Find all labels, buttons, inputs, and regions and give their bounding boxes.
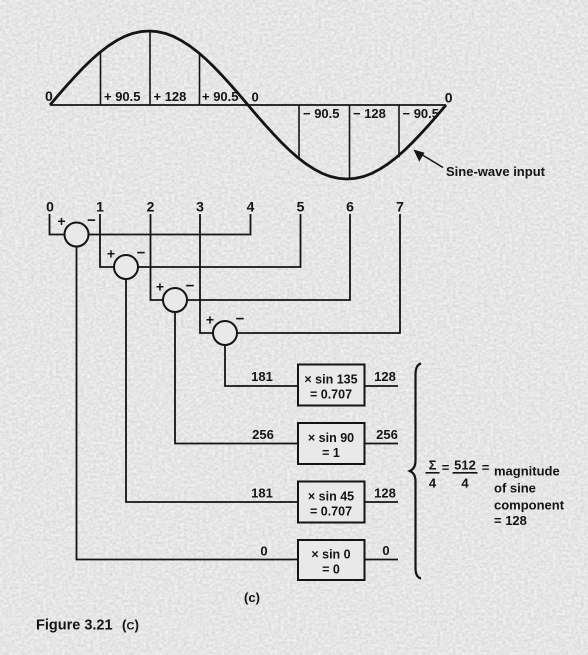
svg-text:× sin 45: × sin 45 bbox=[308, 490, 354, 504]
svg-text:− 90.5: − 90.5 bbox=[403, 106, 440, 121]
svg-text:= 0: = 0 bbox=[322, 563, 340, 577]
svg-text:128: 128 bbox=[374, 369, 396, 384]
svg-text:− 128: − 128 bbox=[353, 106, 386, 121]
wire M1 output bbox=[365, 385, 398, 387]
wire M3 output bbox=[365, 501, 398, 503]
sample line 7 (-90.5) bbox=[398, 105, 400, 157]
svg-text:6: 6 bbox=[346, 199, 354, 215]
wire sample 4 to S1 minus input bbox=[89, 214, 251, 235]
svg-text:Σ: Σ bbox=[429, 458, 437, 473]
svg-text:+ 90.5: + 90.5 bbox=[202, 89, 239, 104]
arrow to sine curve bbox=[414, 150, 444, 168]
sample line 5 (-90.5) bbox=[298, 105, 300, 157]
brace grouping outputs bbox=[410, 364, 421, 579]
svg-text:+: + bbox=[57, 213, 65, 229]
formula sum/4 = 512/4 bbox=[426, 458, 490, 491]
svg-text:256: 256 bbox=[376, 427, 398, 442]
svg-text:component: component bbox=[494, 498, 565, 513]
formula result text bbox=[494, 464, 565, 529]
svg-text:× sin 135: × sin 135 bbox=[304, 373, 357, 387]
svg-text:Figure 3.21: Figure 3.21 bbox=[36, 618, 113, 634]
multiplier box M4 (x sin 0) bbox=[298, 540, 365, 580]
svg-text:+ 90.5: + 90.5 bbox=[104, 89, 141, 104]
svg-text:256: 256 bbox=[252, 427, 274, 442]
svg-text:= 0.707: = 0.707 bbox=[310, 388, 352, 402]
svg-text:181: 181 bbox=[251, 486, 273, 501]
svg-text:1: 1 bbox=[96, 199, 104, 215]
summing junction S3 bbox=[156, 278, 195, 313]
svg-text:0: 0 bbox=[382, 543, 389, 558]
svg-text:+: + bbox=[107, 246, 115, 262]
svg-text:=: = bbox=[482, 460, 490, 475]
svg-text:=: = bbox=[442, 460, 450, 475]
summing junction S2 bbox=[107, 245, 146, 280]
svg-text:181: 181 bbox=[251, 369, 273, 384]
sample line 2 (+128) bbox=[149, 31, 151, 105]
svg-text:(C): (C) bbox=[122, 618, 139, 633]
svg-text:(c): (c) bbox=[244, 590, 260, 605]
svg-text:Sine-wave input: Sine-wave input bbox=[446, 164, 546, 179]
svg-text:× sin 90: × sin 90 bbox=[308, 431, 354, 445]
svg-text:0: 0 bbox=[260, 544, 267, 559]
svg-text:−: − bbox=[236, 311, 245, 328]
multiplier box M1 (x sin 135) bbox=[298, 365, 365, 406]
svg-text:+ 128: + 128 bbox=[154, 89, 187, 104]
svg-text:−: − bbox=[137, 245, 146, 262]
summing junction S1 bbox=[57, 212, 96, 247]
wire M2 output bbox=[365, 443, 398, 445]
wire S3 output to M2 bbox=[175, 313, 297, 444]
wire sample 1 to S2 plus input bbox=[100, 214, 114, 267]
wire sample 5 to S2 minus input bbox=[139, 214, 301, 267]
wire sample 7 to S4 minus input bbox=[238, 214, 401, 333]
multiplier box M2 (x sin 90) bbox=[298, 423, 365, 464]
sample line 6 (-128) bbox=[349, 105, 351, 179]
svg-text:0: 0 bbox=[45, 88, 53, 104]
svg-text:512: 512 bbox=[454, 458, 476, 473]
svg-text:7: 7 bbox=[396, 199, 404, 215]
svg-text:of sine: of sine bbox=[494, 481, 536, 496]
svg-text:−: − bbox=[186, 278, 195, 295]
svg-text:4: 4 bbox=[429, 476, 437, 491]
svg-text:− 90.5: − 90.5 bbox=[303, 106, 340, 121]
wire S4 output to M1 bbox=[225, 346, 297, 387]
sine-wave curve bbox=[50, 31, 446, 179]
wire sample 2 to S3 plus input bbox=[151, 214, 163, 300]
multiplier box M3 (x sin 45) bbox=[298, 482, 365, 523]
svg-text:0: 0 bbox=[252, 90, 259, 105]
sample line 1 (+90.5) bbox=[100, 53, 102, 105]
svg-text:= 1: = 1 bbox=[322, 446, 340, 460]
svg-text:+: + bbox=[156, 279, 164, 295]
svg-text:= 0.707: = 0.707 bbox=[310, 505, 352, 519]
summing junction S4 bbox=[206, 311, 245, 346]
svg-text:5: 5 bbox=[297, 199, 305, 215]
svg-text:magnitude: magnitude bbox=[494, 464, 560, 479]
svg-text:128: 128 bbox=[374, 486, 396, 501]
svg-text:+: + bbox=[206, 312, 214, 328]
caption Figure 3.21 (c) bbox=[36, 618, 139, 634]
svg-text:0: 0 bbox=[46, 199, 54, 215]
svg-text:0: 0 bbox=[445, 90, 453, 106]
svg-text:4: 4 bbox=[461, 476, 469, 491]
axis (time axis of sine plot) bbox=[50, 104, 446, 106]
svg-text:2: 2 bbox=[147, 199, 155, 215]
wire M4 output bbox=[365, 559, 398, 561]
wire S2 output to M3 bbox=[126, 280, 297, 503]
sample line 3 (+90.5) bbox=[199, 53, 201, 105]
svg-text:= 128: = 128 bbox=[494, 513, 527, 528]
wire sample 0 to S1 plus input bbox=[50, 214, 64, 235]
svg-text:× sin 0: × sin 0 bbox=[311, 548, 350, 562]
svg-text:4: 4 bbox=[247, 199, 255, 215]
svg-text:3: 3 bbox=[196, 199, 204, 215]
wire sample 3 to S4 plus input bbox=[200, 214, 213, 333]
wire sample 6 to S3 minus input bbox=[188, 214, 351, 300]
wire S1 output to M4 bbox=[77, 247, 299, 560]
svg-text:−: − bbox=[87, 212, 96, 229]
